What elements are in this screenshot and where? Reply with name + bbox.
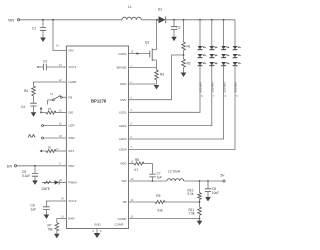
svg-text:R8: R8 xyxy=(135,158,139,162)
svg-text:VDD: VDD xyxy=(120,162,127,166)
svg-text:VIN: VIN xyxy=(8,18,14,22)
resistor R2 OVP bottom xyxy=(182,59,191,73)
svg-text:GND: GND xyxy=(94,223,102,227)
LED string 3 xyxy=(129,19,230,139)
ground below R3 xyxy=(154,85,160,90)
svg-text:L1: L1 xyxy=(128,5,132,9)
svg-text:COMP: COMP xyxy=(118,217,127,221)
svg-text:4.7: 4.7 xyxy=(134,168,139,172)
resistor R8 at VDD pin xyxy=(129,158,153,172)
svg-text:FB: FB xyxy=(123,200,127,204)
resistor R10 output divider top xyxy=(188,180,202,207)
ground below C2 xyxy=(171,37,177,41)
wire FB rail xyxy=(129,201,156,203)
wire D1 to LED rail xyxy=(166,19,235,21)
ground below C6 xyxy=(44,215,50,220)
diode D1 xyxy=(158,8,166,24)
svg-text:D1: D1 xyxy=(158,8,162,12)
svg-text:LED4: LED4 xyxy=(119,148,127,152)
svg-text:C1: C1 xyxy=(32,27,36,31)
resistor R1 OVP top xyxy=(182,19,191,59)
resistor R5 to pin ISE xyxy=(40,107,67,114)
svg-text:R1: R1 xyxy=(187,45,191,49)
node OVP tap xyxy=(183,54,185,56)
resistor R6 to pin SST xyxy=(40,147,67,153)
svg-text:9.1k: 9.1k xyxy=(188,192,194,196)
inductor L2 xyxy=(167,170,184,182)
svg-text:OVP: OVP xyxy=(120,98,126,102)
capacitor C6 at VCC2 xyxy=(31,201,67,215)
svg-text:1uF: 1uF xyxy=(31,208,37,212)
transistor Q1 xyxy=(129,41,157,62)
wire EN to DIM pin xyxy=(17,165,67,167)
svg-text:LAMP: LAMP xyxy=(68,80,76,84)
svg-text:3014B6: 3014B6 xyxy=(234,82,238,93)
svg-text:COMP: COMP xyxy=(115,223,124,227)
ground IC GND pin xyxy=(93,229,103,239)
wire VIN rail top xyxy=(20,19,122,21)
capacitor C5 on EN xyxy=(22,165,38,180)
svg-text:EN: EN xyxy=(7,164,12,168)
wire sense pin to source xyxy=(129,67,157,69)
wire Q1 drain up xyxy=(156,20,158,50)
svg-text:SSR: SSR xyxy=(68,136,75,140)
svg-text:C2: C2 xyxy=(177,26,181,30)
svg-text:R2: R2 xyxy=(187,62,191,66)
wire OVP tap to OVP pin xyxy=(129,55,184,100)
svg-text:SST: SST xyxy=(68,149,74,153)
ground below R7 xyxy=(54,234,60,239)
svg-text:7.5k: 7.5k xyxy=(189,212,195,216)
svg-text:1uF: 1uF xyxy=(157,176,163,180)
capacitor C7 xyxy=(149,164,162,182)
ground below C5 xyxy=(32,180,38,185)
IC left pin labels xyxy=(68,49,76,221)
svg-text:0.1uF: 0.1uF xyxy=(22,174,30,178)
svg-text:R9: R9 xyxy=(156,194,160,198)
wire SW pin rail xyxy=(129,180,168,182)
ground below C8 xyxy=(205,197,211,202)
resistor R7 at EAR pin xyxy=(48,219,67,234)
IC pin numbers right side xyxy=(131,50,134,218)
resistor R9 in FB rail xyxy=(155,194,200,213)
svg-text:R3: R3 xyxy=(160,73,164,77)
svg-text:L2 10uH: L2 10uH xyxy=(168,170,181,174)
svg-text:SW: SW xyxy=(122,179,127,183)
ground below OVP divider xyxy=(181,73,187,78)
node EN input terminal xyxy=(7,164,17,168)
svg-text:EAR: EAR xyxy=(68,217,75,221)
wire LDR pin stub xyxy=(42,125,67,127)
wire Q1 source down xyxy=(156,60,158,70)
switch S1 xyxy=(48,93,67,105)
wire L2 to output xyxy=(184,180,223,182)
IC pin numbers left side xyxy=(56,64,64,219)
wire LAMP pin xyxy=(34,82,67,86)
IC right pin labels xyxy=(116,52,127,221)
node output terminal 5V xyxy=(221,174,226,183)
svg-text:GATE: GATE xyxy=(42,187,50,191)
node VIN input terminal xyxy=(8,18,20,22)
capacitor C4 xyxy=(21,103,37,112)
svg-text:10uF: 10uF xyxy=(212,191,219,195)
svg-text:GND: GND xyxy=(120,82,128,86)
wire rail to pin VIN xyxy=(52,19,66,51)
node drain junction xyxy=(156,19,158,21)
svg-text:VIN: VIN xyxy=(68,49,73,53)
IC U1 BP1278 xyxy=(66,46,128,229)
svg-text:R4: R4 xyxy=(24,89,28,93)
diode D2 into PWMI pin xyxy=(42,180,67,191)
svg-text:LED3: LED3 xyxy=(119,137,127,141)
svg-text:PWMI: PWMI xyxy=(68,181,76,185)
svg-text:ISE: ISE xyxy=(68,111,73,115)
svg-text:VCC1: VCC1 xyxy=(68,65,76,69)
wire pgnd pin to sense bottom xyxy=(129,83,157,85)
wire SSR pin stub xyxy=(28,135,66,140)
LED string 1 xyxy=(129,19,206,112)
svg-text:Q1: Q1 xyxy=(145,41,149,45)
svg-text:3014B6: 3014B6 xyxy=(222,82,226,93)
capacitor C3 at VCC1 xyxy=(37,60,66,71)
svg-text:FB: FB xyxy=(68,96,72,100)
ground below divider xyxy=(197,221,203,226)
LED string 2 xyxy=(129,19,218,126)
ground below C4 xyxy=(31,112,37,117)
svg-text:75k: 75k xyxy=(48,228,54,232)
wire COMP pin to gnd node xyxy=(129,218,201,221)
svg-text:VCC2: VCC2 xyxy=(68,199,76,203)
resistor R4 xyxy=(24,86,35,103)
svg-text:SENSE: SENSE xyxy=(116,66,126,70)
svg-text:3014B6: 3014B6 xyxy=(211,82,215,93)
svg-text:LED1: LED1 xyxy=(119,111,127,115)
capacitor C8 xyxy=(205,180,219,197)
svg-text:BP1278: BP1278 xyxy=(91,99,107,104)
LED string 4 xyxy=(129,20,241,150)
svg-text:C3: C3 xyxy=(43,60,47,64)
svg-text:3014B6: 3014B6 xyxy=(199,82,203,93)
svg-text:C4: C4 xyxy=(21,105,25,109)
capacitor C2 output cap xyxy=(171,19,181,37)
ground below C1 xyxy=(40,38,46,43)
inductor L1 xyxy=(122,5,141,20)
svg-text:LED2: LED2 xyxy=(119,124,127,128)
svg-text:91k: 91k xyxy=(158,209,164,213)
resistor R3 sense xyxy=(155,70,165,84)
svg-text:DIM: DIM xyxy=(68,164,74,168)
svg-text:GATE: GATE xyxy=(119,52,127,56)
capacitor C1 xyxy=(32,19,46,38)
svg-text:LDR: LDR xyxy=(68,124,75,128)
wire L1 to D1 xyxy=(141,19,158,21)
resistor R11 output divider bottom xyxy=(189,207,202,219)
